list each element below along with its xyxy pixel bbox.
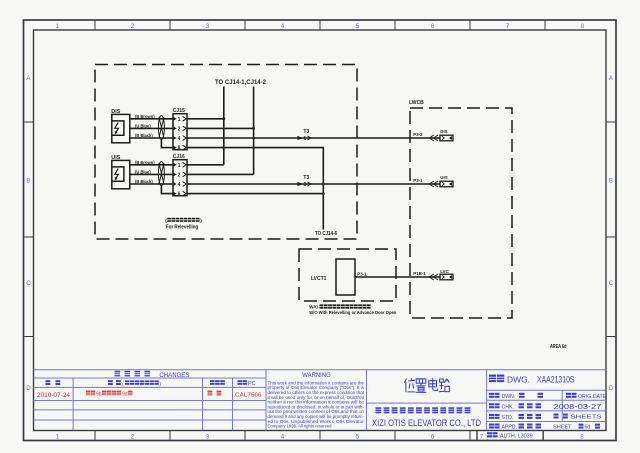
- warning body text: [268, 380, 365, 428]
- column header change PC: [238, 380, 256, 387]
- pin 4 CJ15: [173, 136, 186, 143]
- svg-text:7: 7: [480, 434, 484, 441]
- border frame inner: [34, 30, 607, 431]
- svg-text:W/O: W/O: [309, 305, 319, 310]
- plug UIS: [440, 175, 453, 187]
- wire UIS black: [130, 183, 173, 185]
- zone ticks right: [606, 122, 616, 337]
- wire CJ15-4 to P3-2: [187, 137, 440, 139]
- pin 6 CJ15: [173, 145, 186, 152]
- dashed enclosure LVCT1: [299, 249, 396, 301]
- dwg number label 图号 DWG.: [489, 374, 530, 384]
- svg-text:AREA 6d: AREA 6d: [550, 344, 567, 350]
- pin 1 CJ16: [173, 162, 186, 169]
- svg-text:P3-1: P3-1: [413, 178, 423, 183]
- pin 6 CJ16: [173, 191, 186, 198]
- svg-text:TO CJ14-1,CJ14-2: TO CJ14-1,CJ14-2: [215, 79, 266, 86]
- orig date label: [566, 393, 607, 400]
- changes table grid: [34, 370, 607, 431]
- zone letters right: [609, 75, 614, 392]
- terminal T3 wire 2: [298, 175, 311, 188]
- svg-text:4: 4: [178, 136, 181, 142]
- svg-text:For Relevelling: For Relevelling: [166, 225, 199, 231]
- svg-text:T3: T3: [303, 175, 309, 181]
- svg-text:2: 2: [131, 23, 135, 30]
- svg-text:(B Brown): (B Brown): [135, 160, 155, 165]
- svg-text:2010-07-24: 2010-07-24: [37, 393, 71, 399]
- svg-text:4: 4: [281, 434, 285, 441]
- svg-text:DIS: DIS: [111, 109, 120, 115]
- column header date: [46, 380, 61, 385]
- svg-text:PC: PC: [248, 381, 256, 387]
- svg-text:CAL7566: CAL7566: [235, 393, 262, 399]
- svg-text:(U Blue): (U Blue): [135, 170, 151, 175]
- svg-text:2: 2: [178, 127, 181, 133]
- svg-text:(B Black): (B Black): [135, 133, 153, 138]
- svg-text:9b: 9b: [96, 391, 102, 397]
- svg-text:C: C: [609, 280, 614, 287]
- svg-text:6: 6: [431, 434, 435, 441]
- svg-text:C: C: [26, 280, 31, 287]
- auth cell divider bottom strip: [477, 431, 543, 441]
- column header change content: [108, 380, 161, 387]
- hanzi wei: [404, 378, 415, 392]
- svg-text:1: 1: [303, 136, 306, 142]
- svg-text:TO CJ14-6: TO CJ14-6: [315, 231, 337, 237]
- svg-text:DWN.: DWN.: [502, 394, 516, 400]
- hanzi lu: [439, 379, 450, 392]
- svg-text:B: B: [609, 178, 613, 185]
- svg-text:CHANGES: CHANGES: [159, 372, 189, 379]
- plug LVC: [440, 269, 453, 280]
- svg-text:9d: 9d: [122, 391, 128, 397]
- svg-text:STD.: STD.: [502, 415, 514, 421]
- svg-text:B: B: [26, 178, 30, 185]
- hanzi dian: [429, 378, 438, 390]
- pin 1 CJ15: [173, 116, 186, 123]
- wire CJ15-1 to CJ14-1 riser: [187, 87, 224, 165]
- svg-text:AUTH. L3039: AUTH. L3039: [500, 434, 533, 440]
- svg-text:3: 3: [206, 434, 210, 441]
- dwg block grid: [487, 390, 606, 421]
- label for relevelling (chinese): [165, 218, 202, 223]
- svg-text:(B Brown): (B Brown): [135, 114, 155, 119]
- svg-text:3: 3: [206, 23, 210, 30]
- approved row 批准 APPD: [489, 424, 541, 431]
- checked row 校对 CHK: [489, 403, 541, 410]
- svg-text:XIZI OTIS ELEVATOR CO., LTD: XIZI OTIS ELEVATOR CO., LTD: [372, 417, 481, 428]
- junction CJ15-1: [222, 117, 225, 120]
- plug DIS: [440, 129, 453, 141]
- svg-text:ORIG.DATE: ORIG.DATE: [578, 394, 607, 400]
- wire UIS brown: [130, 164, 173, 166]
- svg-text:WARNING: WARNING: [302, 372, 331, 379]
- svg-text:2: 2: [178, 173, 181, 179]
- svg-text:2: 2: [303, 182, 306, 188]
- svg-text:LVC: LVC: [440, 269, 449, 274]
- junction shield bus: [322, 192, 325, 195]
- pin 2 CJ16: [173, 172, 186, 179]
- svg-text:P3-2: P3-2: [413, 132, 423, 137]
- plug arrows P3-1: [429, 181, 438, 187]
- plug arrows P1B-1: [429, 274, 438, 280]
- wire shield bus to CJ14-6: [187, 148, 323, 230]
- svg-text:APPD.: APPD.: [502, 425, 518, 431]
- sensor DIS: [112, 114, 130, 142]
- svg-text:8: 8: [580, 434, 584, 441]
- svg-text:7: 7: [506, 23, 510, 30]
- svg-text:1: 1: [178, 163, 181, 169]
- svg-text:1: 1: [56, 434, 60, 441]
- svg-text:1: 1: [178, 117, 181, 123]
- lightning arrow inside DIS: [115, 123, 119, 135]
- wire shield DIS to pin 6: [161, 140, 173, 148]
- wire DIS brown: [130, 118, 173, 120]
- svg-text:6: 6: [178, 146, 181, 152]
- connector CJ15: [173, 114, 187, 150]
- svg-text:1: 1: [56, 23, 60, 30]
- wire CJ16-4 to P3-1: [187, 183, 440, 185]
- svg-text:UIS: UIS: [111, 155, 120, 161]
- svg-text:LWCB: LWCB: [409, 100, 424, 106]
- pin 2 CJ15: [173, 126, 186, 133]
- label W/O relevelling (chinese): [309, 304, 370, 309]
- shielded twisted cable symbol DIS: [158, 116, 164, 140]
- svg-text:4: 4: [178, 182, 181, 188]
- svg-text:(U Blue): (U Blue): [135, 124, 151, 129]
- lightning arrow inside UIS: [115, 169, 119, 181]
- glyph texture stripes (background colour): [46, 220, 601, 435]
- svg-text:2: 2: [131, 434, 135, 441]
- svg-text:6: 6: [431, 23, 435, 30]
- relay box LVCT1: [336, 259, 355, 295]
- drawing title 位置电路 (vector strokes): [404, 378, 449, 392]
- sensor UIS: [112, 160, 130, 188]
- changes table header 更改记录 CHANGES: [115, 371, 190, 379]
- svg-text:8: 8: [581, 23, 585, 30]
- svg-text:6d: 6d: [585, 425, 591, 431]
- zone numbers bottom: [56, 434, 585, 441]
- drawn by row 制图 DWN: [489, 393, 543, 400]
- dashed enclosure LWCB: [410, 108, 512, 318]
- svg-text:DWG.: DWG.: [507, 374, 530, 384]
- svg-text:CJ15: CJ15: [173, 108, 185, 114]
- zone ticks left: [24, 122, 34, 337]
- plug arrows P3-2: [429, 135, 438, 141]
- sheet number SHEET 第6d页: [553, 424, 600, 431]
- svg-text:D: D: [26, 385, 31, 392]
- svg-text:DIS: DIS: [440, 129, 447, 134]
- wire shield UIS to pin 6: [161, 186, 173, 194]
- svg-text:Company 1998. All rights reser: Company 1998. All rights reserved: [268, 424, 332, 429]
- column header changed by: [210, 380, 225, 385]
- warning / title divider: [367, 370, 487, 431]
- sheets label 共页 SHEETS: [554, 414, 602, 421]
- svg-text:D: D: [609, 385, 614, 392]
- connector CJ16: [173, 160, 187, 196]
- wire LVCT1 to P1B-1: [355, 276, 440, 278]
- shielded twisted cable symbol UIS: [158, 162, 164, 186]
- zone letters left: [26, 75, 31, 392]
- hanzi zhi: [416, 379, 427, 393]
- svg-text:CHK.: CHK.: [502, 404, 514, 410]
- standard row 标审 STD: [489, 414, 541, 421]
- svg-text:LVCT1: LVCT1: [311, 276, 327, 282]
- svg-text:T3: T3: [303, 129, 309, 135]
- wire DIS black: [130, 137, 173, 139]
- zone ticks top: [95, 20, 545, 30]
- dashed enclosure for relevelling sensors: [95, 65, 357, 240]
- svg-text:SHEETS: SHEETS: [571, 415, 602, 421]
- pin 4 CJ16: [173, 182, 186, 189]
- svg-text:4: 4: [281, 23, 285, 30]
- svg-text:XAA21310S: XAA21310S: [537, 374, 575, 384]
- svg-text:W/O With Relevelling or Advanc: W/O With Relevelling or Advance Door Ope…: [309, 310, 396, 316]
- revision author (red): [208, 391, 222, 396]
- company name chinese (blocks): [376, 407, 471, 413]
- svg-text:(B Black): (B Black): [135, 179, 153, 184]
- zone ticks bottom: [95, 431, 470, 441]
- junction CJ15-2: [252, 127, 255, 130]
- svg-text:CJ16: CJ16: [173, 154, 185, 160]
- svg-text:UIS: UIS: [440, 175, 447, 180]
- svg-text:5: 5: [356, 23, 360, 30]
- revision description (red): [86, 391, 132, 398]
- wire DIS blue: [130, 127, 173, 129]
- svg-text:5: 5: [356, 434, 360, 441]
- svg-text:P1B-1: P1B-1: [413, 271, 426, 276]
- svg-text:2008-03-27: 2008-03-27: [554, 402, 602, 411]
- auth cell 授权 AUTH. L3039: [487, 432, 533, 439]
- svg-text:P3-1: P3-1: [357, 272, 367, 277]
- zone numbers top: [56, 23, 585, 30]
- wire UIS blue: [130, 173, 173, 175]
- svg-text:6: 6: [178, 192, 181, 198]
- terminal T3 wire 1: [298, 129, 311, 142]
- wire CJ15-2 to CJ14-2 riser: [187, 87, 254, 175]
- svg-text:SHEET: SHEET: [553, 425, 572, 431]
